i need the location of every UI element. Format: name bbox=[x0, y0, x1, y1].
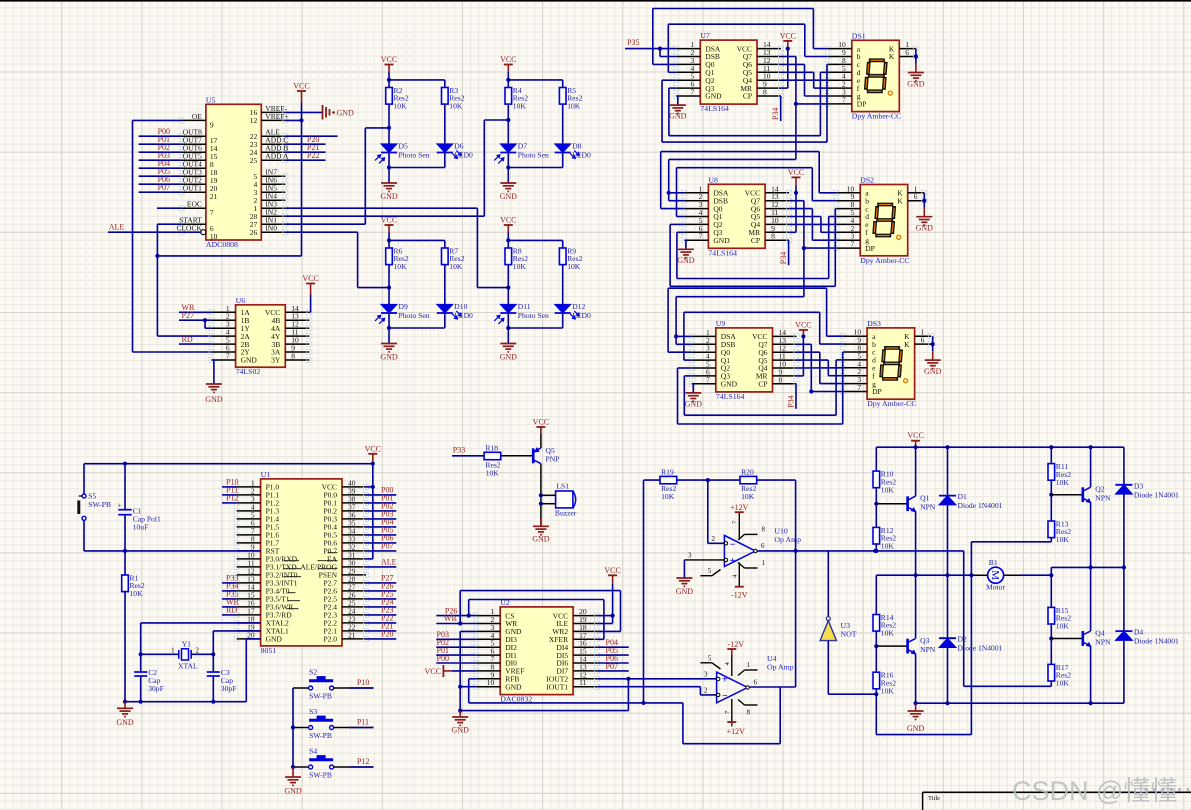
svg-text:Motor: Motor bbox=[986, 583, 1005, 592]
wire P33 to R18 bbox=[452, 455, 484, 457]
wires P2 bus right of U1 bbox=[366, 582, 396, 584]
resistor R6 bbox=[386, 248, 393, 265]
display DS2 Dpy Amber-CC bbox=[860, 185, 908, 256]
wire D8 bottom to D7 column bbox=[562, 153, 564, 168]
wire Q4 emitter bbox=[1090, 646, 1092, 703]
wire EOC stub bbox=[157, 207, 182, 209]
junction motor right bbox=[1049, 573, 1053, 577]
LED D6 bbox=[437, 144, 453, 153]
svg-text:GND: GND bbox=[907, 80, 925, 89]
switch S4 SW-PB bbox=[309, 765, 313, 769]
svg-text:VCC: VCC bbox=[533, 418, 549, 427]
capacitor C2 bbox=[140, 654, 142, 672]
ground under U7 bbox=[670, 104, 686, 106]
svg-text:10K: 10K bbox=[1056, 478, 1070, 487]
svg-text:P34: P34 bbox=[771, 108, 780, 120]
svg-text:IN0: IN0 bbox=[265, 224, 277, 233]
svg-text:7: 7 bbox=[226, 352, 230, 361]
svg-text:DS2: DS2 bbox=[860, 176, 874, 185]
junction DSA/DSB stage 2 bbox=[667, 191, 671, 195]
wire U2 GND pin3 bbox=[460, 630, 476, 632]
svg-text:Photo Sen: Photo Sen bbox=[399, 311, 430, 320]
wire D10 bottom bbox=[444, 313, 446, 328]
svg-text:GND: GND bbox=[669, 112, 687, 121]
svg-text:VCC: VCC bbox=[293, 82, 309, 91]
wire U1 pin20 gnd bbox=[246, 638, 260, 640]
svg-text:2: 2 bbox=[712, 535, 716, 543]
svg-text:GND: GND bbox=[505, 682, 522, 691]
junction C3 gnd bbox=[211, 700, 215, 704]
svg-text:+: + bbox=[730, 556, 736, 567]
svg-text:S2: S2 bbox=[309, 668, 317, 677]
svg-text:10K: 10K bbox=[881, 485, 895, 494]
junction S4 bbox=[291, 765, 295, 769]
junction pin40 bbox=[371, 485, 375, 489]
svg-text:6: 6 bbox=[905, 48, 909, 57]
svg-text:6: 6 bbox=[761, 542, 765, 550]
svg-text:10: 10 bbox=[210, 232, 218, 241]
wire R18 to Q5 base bbox=[501, 455, 533, 457]
LED D8 bbox=[555, 144, 571, 153]
svg-text:PNP: PNP bbox=[546, 454, 560, 463]
wires P33-RD bbox=[222, 582, 237, 584]
wire R6 to D9 bbox=[388, 265, 390, 305]
svg-text:P2.0: P2.0 bbox=[323, 635, 337, 644]
junction VCC pin14 bbox=[801, 334, 805, 338]
svg-text:D2: D2 bbox=[958, 635, 967, 644]
switch S3 SW-PB bbox=[309, 726, 313, 730]
svg-text:10K: 10K bbox=[741, 492, 755, 501]
svg-text:P34: P34 bbox=[787, 395, 796, 407]
svg-text:VCC: VCC bbox=[795, 321, 811, 330]
wire base to Q3 bbox=[876, 645, 906, 647]
wire U7 gnd pin bbox=[676, 95, 678, 97]
photodiode D11 bbox=[500, 304, 516, 313]
junction R19 R20 bbox=[706, 478, 710, 482]
svg-text:OUT1: OUT1 bbox=[183, 184, 202, 193]
ground under D5 bbox=[381, 182, 397, 184]
resistor R4 bbox=[505, 88, 512, 105]
svg-text:10K: 10K bbox=[394, 262, 408, 271]
resistor R5 bbox=[559, 88, 566, 105]
wire R14 top bbox=[875, 575, 877, 614]
svg-text:GND: GND bbox=[241, 356, 258, 365]
svg-text:GND: GND bbox=[116, 718, 134, 727]
ground under U6 bbox=[206, 383, 222, 385]
junction Q1 base node bbox=[874, 502, 878, 506]
wire VCC to R2 bbox=[388, 80, 390, 88]
svg-text:DS3: DS3 bbox=[867, 319, 881, 328]
svg-text:VCC: VCC bbox=[604, 566, 620, 575]
svg-text:1: 1 bbox=[762, 559, 766, 567]
wire IOUT2 gnd drop bbox=[627, 679, 629, 711]
mid rail right bbox=[1051, 566, 1124, 568]
title block lines bbox=[923, 791, 1191, 793]
svg-text:M: M bbox=[989, 570, 1001, 580]
svg-text:U8: U8 bbox=[708, 175, 718, 184]
transistor Q5 PNP bbox=[532, 448, 535, 463]
capacitor C3 bbox=[212, 654, 214, 672]
IC U8 74LS164 bbox=[708, 184, 765, 248]
junction DP bbox=[809, 389, 813, 393]
svg-text:D10: D10 bbox=[454, 302, 467, 311]
ground under D7 bbox=[500, 182, 516, 184]
wire K gnd bbox=[932, 344, 934, 351]
junction IOUT2 bbox=[626, 677, 630, 681]
diode D4 1N4001 bbox=[1123, 567, 1125, 631]
svg-text:SW-PB: SW-PB bbox=[309, 771, 332, 780]
svg-text:CLOCK: CLOCK bbox=[176, 224, 202, 233]
wire MR tied to VCC bbox=[795, 193, 797, 233]
svg-text:GND: GND bbox=[916, 224, 934, 233]
power VCC at VREF bbox=[442, 665, 444, 677]
power VCC lower-left sensor pair bbox=[385, 224, 394, 226]
svg-text:74LS02: 74LS02 bbox=[236, 367, 261, 376]
svg-text:B1: B1 bbox=[989, 558, 998, 567]
wire Q7 to segment DP and cascade bbox=[781, 56, 796, 58]
svg-text:GND: GND bbox=[266, 635, 283, 644]
power VCC above U1 bbox=[368, 453, 377, 455]
junction D7 tap bbox=[506, 118, 510, 122]
power VCC lower-right sensor pair bbox=[504, 224, 513, 226]
svg-text:8: 8 bbox=[771, 232, 775, 241]
resistor R13 bbox=[1050, 495, 1052, 521]
svg-text:ADC0808: ADC0808 bbox=[206, 240, 238, 249]
svg-text:7: 7 bbox=[842, 95, 846, 104]
wire CS to XFER loop bbox=[468, 600, 470, 616]
wire VCC to R5 bbox=[508, 79, 562, 81]
U4 power pin4 -12V bbox=[731, 655, 733, 676]
svg-text:NPN: NPN bbox=[1095, 637, 1111, 646]
wires ADD C/B/A to port labels bbox=[285, 143, 325, 145]
ground under U8 bbox=[678, 248, 694, 250]
wire Q1 to segment b loop bbox=[668, 71, 676, 73]
wire S3 right bbox=[334, 727, 374, 729]
svg-text:GND: GND bbox=[452, 726, 470, 735]
junction buzzer pin2 bbox=[539, 502, 543, 506]
wire D6 bottom to D5 column bbox=[444, 153, 446, 168]
svg-text:DS1: DS1 bbox=[852, 31, 866, 40]
wire Q4 to segment e bbox=[781, 79, 828, 81]
wire CP to P34 label bbox=[780, 95, 782, 97]
svg-text:Title: Title bbox=[928, 795, 940, 802]
svg-text:NPN: NPN bbox=[1095, 494, 1111, 503]
svg-text:R18: R18 bbox=[485, 443, 498, 452]
wire P35 to DSA bbox=[625, 48, 676, 50]
svg-text:LED0: LED0 bbox=[572, 150, 591, 159]
wires OUT8-OUT1 to port labels bbox=[139, 135, 182, 137]
wire IN0 to D9 tap bbox=[285, 231, 357, 233]
svg-text:Buzzer: Buzzer bbox=[555, 509, 577, 518]
svg-text:P20: P20 bbox=[381, 630, 393, 639]
junction pin20 bbox=[611, 614, 615, 618]
junction VCC R8/R9 bbox=[506, 238, 510, 242]
wire Q5 emitter bbox=[540, 434, 542, 448]
wire S4 left bbox=[293, 766, 309, 768]
svg-text:ADD A: ADD A bbox=[265, 152, 289, 161]
junction C1 top bbox=[123, 462, 127, 466]
svg-text:−: − bbox=[730, 540, 736, 551]
svg-text:P07: P07 bbox=[381, 542, 393, 551]
wire XTAL1 row bbox=[213, 630, 260, 632]
wire IOUT1 to opamp minus bbox=[597, 686, 700, 688]
transistor Q1 NPN bbox=[906, 496, 909, 511]
transistor Q4 NPN bbox=[1082, 631, 1085, 646]
ground under switches bbox=[285, 776, 301, 778]
svg-text:OE: OE bbox=[192, 112, 202, 121]
wire R19 left bbox=[644, 479, 661, 481]
wire Q2 to segment c loop bbox=[670, 223, 684, 225]
svg-text:7: 7 bbox=[706, 375, 710, 384]
wire Q0 to segment a loop bbox=[661, 208, 685, 210]
junction D5/D6 cathodes bbox=[387, 165, 391, 169]
svg-text:25: 25 bbox=[250, 156, 258, 165]
wire Q7 to segment DP and cascade bbox=[789, 200, 804, 202]
wire R20 right bbox=[757, 479, 796, 481]
svg-text:12: 12 bbox=[250, 116, 258, 125]
svg-text:10K: 10K bbox=[881, 542, 895, 551]
svg-text:10K: 10K bbox=[1056, 622, 1070, 631]
wire VCC feed under U5 bbox=[157, 255, 301, 257]
wire U4 output bbox=[749, 686, 795, 688]
svg-text:DP: DP bbox=[872, 387, 882, 396]
IC U5 ADC0808 bbox=[206, 104, 261, 240]
display DS1 Dpy Amber-CC bbox=[852, 40, 900, 111]
svg-text:Photo Sen: Photo Sen bbox=[518, 150, 549, 159]
svg-text:10K: 10K bbox=[567, 262, 581, 271]
junction D5 tap bbox=[387, 126, 391, 130]
svg-text:VCC: VCC bbox=[500, 55, 516, 64]
wire Q1 emitter bbox=[915, 511, 917, 575]
svg-text:8: 8 bbox=[762, 525, 766, 533]
svg-text:10: 10 bbox=[487, 678, 495, 687]
junction K bbox=[931, 342, 935, 346]
svg-text:NPN: NPN bbox=[920, 645, 936, 654]
svg-text:GND: GND bbox=[713, 236, 730, 245]
diode D3 1N4001 bbox=[1123, 447, 1125, 485]
svg-text:2: 2 bbox=[704, 686, 708, 694]
svg-text:DP: DP bbox=[857, 100, 867, 109]
svg-text:VCC: VCC bbox=[425, 667, 441, 676]
svg-text:2: 2 bbox=[196, 648, 200, 655]
diode D2 1N4001 bbox=[947, 575, 949, 638]
wire Q3 to segment d loop bbox=[669, 87, 676, 89]
ground under U2 bbox=[459, 711, 461, 717]
buzzer LS1 bbox=[556, 491, 573, 508]
svg-text:D11: D11 bbox=[518, 302, 531, 311]
wires P0 bus right of U1 bbox=[366, 494, 396, 496]
wire U7 gnd pin bbox=[684, 239, 686, 241]
wire Q4 to segment e bbox=[797, 367, 844, 369]
motor B1 bbox=[988, 567, 1004, 583]
junction P27 feedback bbox=[203, 318, 207, 322]
wire ILE tied VCC bbox=[612, 616, 614, 624]
wire D5 to gnd junction bbox=[388, 153, 390, 184]
svg-text:GND: GND bbox=[380, 353, 398, 362]
svg-text:9: 9 bbox=[210, 120, 214, 129]
svg-text:−: − bbox=[722, 691, 728, 702]
junction WR bbox=[458, 621, 462, 625]
svg-text:10K: 10K bbox=[486, 468, 500, 477]
motor row bbox=[876, 574, 971, 576]
wire D12 bottom bbox=[562, 313, 564, 328]
junction gnd Q3 bbox=[914, 701, 918, 705]
svg-text:3: 3 bbox=[688, 551, 692, 559]
svg-text:10K: 10K bbox=[130, 589, 144, 598]
svg-text:-12V: -12V bbox=[728, 640, 745, 649]
wire Q2 collector bbox=[1090, 447, 1092, 487]
junction VCC R4/R5 bbox=[506, 78, 510, 82]
wire VCC to R4 bbox=[507, 80, 509, 88]
wire ALE pin stub right bbox=[285, 135, 337, 137]
resistor R16 bbox=[875, 646, 877, 672]
wire ALE to CLOCK pin bbox=[108, 231, 201, 233]
junction rail R11 bbox=[1049, 445, 1053, 449]
svg-text:SW-PB: SW-PB bbox=[309, 731, 332, 740]
wire S5 bottom bbox=[83, 520, 85, 551]
wire crystal right bbox=[191, 653, 213, 655]
svg-text:+12V: +12V bbox=[727, 727, 746, 736]
wire S4 right bbox=[334, 766, 374, 768]
junction K bbox=[914, 54, 918, 58]
svg-text:Op Amp: Op Amp bbox=[774, 535, 801, 544]
U10 power pin7 +12V bbox=[738, 513, 740, 540]
junction xtal right bbox=[211, 652, 215, 656]
junction R12 drive bbox=[874, 549, 878, 553]
wires P10-P12 bbox=[222, 486, 237, 488]
wire WR to U2 bbox=[436, 623, 476, 625]
svg-text:7: 7 bbox=[850, 240, 854, 249]
wire U10 out to U3 bbox=[827, 551, 829, 617]
gnd rail U1 bbox=[125, 701, 246, 703]
resistor R14 bbox=[873, 615, 880, 632]
wire VCC to pin20 bbox=[597, 615, 613, 617]
svg-text:GND: GND bbox=[380, 192, 398, 201]
wire OE to U6 2Y bbox=[133, 119, 182, 121]
svg-text:8: 8 bbox=[779, 375, 783, 384]
junction C2 gnd bbox=[139, 700, 143, 704]
junction motor Q1 bbox=[914, 573, 918, 577]
wire display K pins bbox=[915, 49, 917, 57]
svg-text:GND: GND bbox=[500, 353, 518, 362]
IC U6 74LS02 bbox=[236, 305, 286, 367]
wire VCC to R7 bbox=[389, 239, 445, 241]
svg-text:20: 20 bbox=[247, 630, 255, 639]
wire Q3 emitter bbox=[915, 654, 917, 704]
junction motor D1 bbox=[945, 573, 949, 577]
svg-text:10K: 10K bbox=[513, 262, 527, 271]
junction motor R13 bbox=[969, 573, 973, 577]
display DS3 Dpy Amber-CC bbox=[867, 328, 915, 399]
wire VCC to R6 bbox=[388, 240, 390, 248]
junction R19 to RFB rail bbox=[641, 701, 645, 705]
IC U2 DAC0832 bbox=[500, 607, 573, 695]
wire U10 plus input gnd bbox=[684, 559, 724, 561]
wire Q0 to segment a loop bbox=[653, 63, 677, 65]
svg-text:K: K bbox=[897, 196, 903, 205]
ground at display DS1 bbox=[908, 72, 924, 74]
junction VCC R6/R7 bbox=[387, 238, 391, 242]
svg-text:EOC: EOC bbox=[187, 200, 202, 209]
ground under D11 bbox=[500, 343, 516, 345]
power VCC at U7 bbox=[783, 40, 792, 42]
svg-text:LED0: LED0 bbox=[572, 311, 591, 320]
ground under D9 bbox=[381, 343, 397, 345]
wire R5 to D8 bbox=[562, 104, 564, 144]
junction DP bbox=[794, 102, 798, 106]
junction xtal left bbox=[139, 652, 143, 656]
svg-text:D4: D4 bbox=[1134, 628, 1143, 637]
svg-text:10K: 10K bbox=[881, 629, 895, 638]
svg-text:U1: U1 bbox=[261, 470, 271, 479]
svg-text:8: 8 bbox=[747, 709, 751, 717]
svg-text:30pF: 30pF bbox=[221, 684, 237, 693]
svg-text:S4: S4 bbox=[309, 747, 317, 756]
junction CS bbox=[467, 614, 471, 618]
U10 pin5 stub bbox=[700, 575, 712, 577]
power VCC H-bridge bbox=[911, 440, 920, 442]
junction buzzer pin1 bbox=[539, 493, 543, 497]
svg-text:6: 6 bbox=[914, 192, 918, 201]
resistor R20 Res2 10K bbox=[740, 476, 757, 483]
wire START to U6 2A bbox=[157, 223, 182, 225]
svg-text:-12V: -12V bbox=[731, 591, 748, 600]
svg-text:5: 5 bbox=[708, 654, 712, 662]
junction rail VCC bbox=[914, 445, 918, 449]
svg-text:8: 8 bbox=[763, 88, 767, 97]
power VCC at U9 bbox=[799, 329, 808, 331]
svg-text:GND: GND bbox=[284, 787, 302, 796]
ground main bbox=[124, 702, 126, 709]
wire Q4 collector bbox=[1090, 567, 1092, 631]
wire IOUT2 to opamp bbox=[597, 678, 717, 680]
junction mid D3 bbox=[1122, 565, 1126, 569]
svg-text:Q2: Q2 bbox=[1095, 485, 1104, 494]
svg-text:LED0: LED0 bbox=[454, 150, 473, 159]
svg-text:Diode 1N4001: Diode 1N4001 bbox=[1134, 637, 1179, 646]
wire R7 to D10 bbox=[444, 265, 446, 305]
svg-text:GND: GND bbox=[685, 399, 703, 408]
junction DSA/DSB bbox=[658, 47, 662, 51]
svg-text:10K: 10K bbox=[394, 102, 408, 111]
svg-text:CP: CP bbox=[751, 236, 760, 245]
svg-text:74LS164: 74LS164 bbox=[700, 104, 729, 113]
wire cascade from previous stage Q7 bbox=[669, 158, 796, 160]
svg-text:10K: 10K bbox=[513, 102, 527, 111]
junction START/VCC link bbox=[155, 254, 159, 258]
svg-text:11: 11 bbox=[579, 678, 586, 687]
svg-text:SW-PB: SW-PB bbox=[88, 500, 111, 509]
svg-text:10K: 10K bbox=[567, 102, 581, 111]
ground H-bridge bbox=[915, 703, 917, 711]
svg-text:D7: D7 bbox=[518, 141, 527, 150]
svg-text:WR: WR bbox=[444, 614, 458, 623]
junction D9 tap bbox=[387, 286, 391, 290]
wire XTAL2 row bbox=[141, 622, 261, 624]
svg-text:U7: U7 bbox=[700, 31, 710, 40]
wires DI3-DI0 bbox=[436, 638, 476, 640]
wire MR tied to VCC bbox=[802, 336, 804, 376]
U10 pin8 stub bbox=[738, 534, 745, 540]
svg-text:21: 21 bbox=[348, 630, 356, 639]
ground under Q5 bbox=[540, 518, 542, 526]
svg-text:6: 6 bbox=[754, 679, 758, 687]
wire ALE right bbox=[366, 566, 396, 568]
NOT gate U3 bbox=[826, 617, 830, 621]
svg-text:ALE: ALE bbox=[381, 558, 397, 567]
svg-text:VCC: VCC bbox=[907, 431, 923, 440]
resistor R7 bbox=[442, 248, 449, 265]
